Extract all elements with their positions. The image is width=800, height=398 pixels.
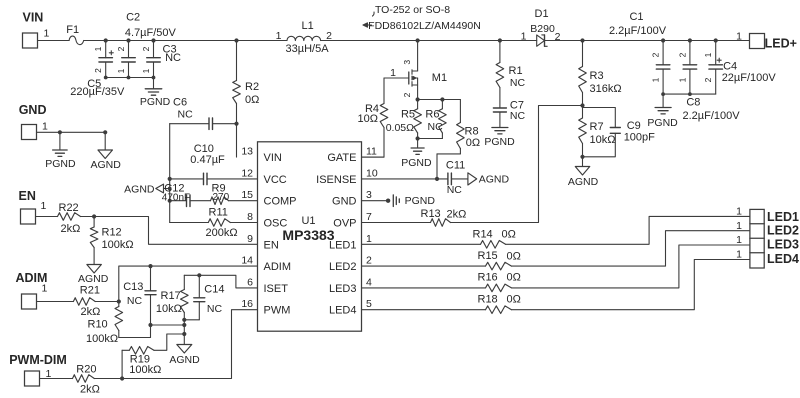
svg-text:0Ω: 0Ω (466, 137, 480, 149)
svg-text:R17: R17 (161, 290, 181, 302)
svg-text:R3: R3 (590, 70, 604, 82)
resistor R17 (156, 275, 188, 344)
annotation package TO-252 (373, 4, 451, 16)
svg-text:C13: C13 (123, 281, 143, 293)
svg-text:C4: C4 (723, 61, 737, 73)
svg-text:PGND: PGND (484, 136, 515, 148)
capacitor C7 (493, 88, 525, 128)
svg-text:C9: C9 (627, 120, 641, 132)
transistor M1 (384, 41, 447, 100)
capacitor C2 (116, 12, 177, 78)
ground PGND of R5 R6 (401, 139, 432, 170)
svg-text:2kΩ: 2kΩ (80, 384, 100, 396)
junction C5 (104, 38, 108, 42)
junction rail-C10 (168, 177, 172, 181)
svg-text:PWM: PWM (264, 305, 291, 317)
svg-text:0Ω: 0Ω (507, 272, 521, 284)
resistor R2 (233, 41, 260, 158)
junction R17-C14 bottom (182, 318, 186, 322)
svg-text:NC: NC (178, 109, 194, 121)
svg-text:GATE: GATE (327, 152, 356, 164)
svg-text:1: 1 (677, 77, 687, 82)
svg-text:3: 3 (402, 60, 412, 65)
svg-text:2: 2 (366, 255, 372, 267)
svg-text:13: 13 (241, 146, 253, 158)
ground PGND of GND pin (393, 195, 435, 207)
junction C13-R17 link (148, 323, 152, 327)
svg-text:C6: C6 (173, 97, 187, 109)
wire PWM net (94, 310, 257, 379)
svg-text:10kΩ: 10kΩ (590, 134, 616, 146)
junction M1 drain (416, 38, 420, 42)
svg-text:22µF/100V: 22µF/100V (722, 72, 777, 84)
svg-text:R22: R22 (59, 202, 79, 214)
svg-text:NC: NC (165, 52, 181, 64)
resistor R20 (73, 364, 100, 396)
svg-text:100kΩ: 100kΩ (102, 239, 134, 251)
svg-text:0.05Ω: 0.05Ω (386, 122, 414, 134)
svg-text:1: 1 (141, 68, 151, 73)
svg-text:LED4: LED4 (767, 252, 799, 266)
svg-text:LED1: LED1 (767, 210, 799, 224)
svg-text:1: 1 (736, 220, 742, 232)
svg-text:LED3: LED3 (329, 283, 357, 295)
resistor R3 (579, 41, 622, 106)
capacitor C8 (677, 41, 740, 123)
svg-text:ADIM: ADIM (264, 261, 292, 273)
svg-text:R14: R14 (473, 229, 493, 241)
svg-text:EN: EN (19, 189, 36, 203)
svg-text:LED+: LED+ (765, 37, 797, 51)
svg-text:16: 16 (241, 298, 253, 310)
resistor R18 (478, 294, 521, 314)
wire output cap bottoms (661, 92, 716, 96)
svg-text:8: 8 (247, 211, 253, 223)
svg-text:2: 2 (402, 92, 412, 97)
svg-text:7: 7 (366, 211, 372, 223)
wire GND pin (362, 199, 391, 203)
svg-text:C14: C14 (204, 284, 224, 296)
svg-text:AGND: AGND (169, 354, 200, 366)
svg-text:0.47µF: 0.47µF (190, 154, 225, 166)
resistor R21 (73, 284, 100, 318)
wire ADIM net (95, 266, 257, 304)
svg-text:LED3: LED3 (767, 237, 799, 251)
svg-text:11: 11 (366, 146, 377, 158)
junction R7 bottom (580, 155, 584, 159)
svg-text:F1: F1 (66, 24, 79, 36)
ground AGND of C11 (468, 173, 510, 186)
wire F1 to L1 (84, 40, 287, 42)
svg-text:1: 1 (93, 46, 103, 51)
capacitor C14 (184, 275, 224, 320)
svg-text:OSC: OSC (264, 218, 288, 230)
ground AGND tap (124, 184, 171, 196)
svg-text:1: 1 (703, 52, 713, 57)
inductor L1 (276, 20, 332, 55)
ground PGND of output caps (647, 94, 678, 129)
wire C13 to R17 bottom (151, 324, 185, 326)
svg-text:ISET: ISET (264, 283, 289, 295)
svg-text:0Ω: 0Ω (507, 251, 521, 263)
svg-text:C8: C8 (686, 97, 700, 109)
svg-text:GND: GND (332, 196, 357, 208)
wire R10 to C13 bottom (119, 337, 151, 339)
wire OVP feedback (451, 106, 583, 223)
connector LED1-LED4 (736, 206, 799, 269)
svg-text:NC: NC (447, 184, 463, 196)
svg-text:2: 2 (93, 68, 103, 73)
svg-text:1: 1 (736, 234, 742, 246)
svg-text:2kΩ: 2kΩ (61, 223, 81, 235)
svg-text:AGND: AGND (124, 184, 155, 196)
capacitor C9 (583, 108, 656, 157)
junction R19 tie (182, 332, 186, 336)
svg-text:100kΩ: 100kΩ (86, 333, 118, 345)
terminal LED+ (736, 31, 797, 51)
svg-text:AGND: AGND (91, 159, 122, 171)
svg-text:316kΩ: 316kΩ (590, 83, 622, 95)
svg-text:NC: NC (510, 110, 526, 122)
capacitor C5 (70, 41, 125, 99)
wire analog rail (169, 124, 171, 223)
svg-text:PGND: PGND (45, 158, 76, 170)
svg-text:AGND: AGND (568, 176, 599, 188)
ground PGND of GND terminal (45, 132, 76, 170)
junction R3 (580, 38, 584, 42)
wire ADIM to R21 (37, 301, 74, 303)
svg-text:NC: NC (207, 303, 223, 315)
svg-text:2.2µF/100V: 2.2µF/100V (609, 25, 667, 37)
svg-text:10kΩ: 10kΩ (156, 303, 182, 315)
ground AGND of GND terminal (91, 132, 122, 171)
svg-text:R18: R18 (478, 294, 498, 306)
svg-text:D1: D1 (535, 8, 549, 20)
svg-text:33µH/5A: 33µH/5A (286, 43, 330, 55)
svg-text:1: 1 (276, 30, 282, 42)
junction C1 (661, 38, 665, 42)
svg-text:220µF/35V: 220µF/35V (70, 86, 125, 98)
svg-text:R13: R13 (421, 208, 441, 220)
svg-text:C2: C2 (126, 12, 140, 24)
wire LED2 net (362, 231, 750, 266)
svg-text:LED4: LED4 (329, 305, 357, 317)
svg-text:2kΩ: 2kΩ (447, 209, 467, 221)
svg-text:R7: R7 (590, 121, 604, 133)
ground PGND input caps (140, 78, 171, 109)
svg-text:PGND: PGND (140, 96, 171, 108)
wire input cap bottoms (104, 76, 156, 80)
junction C8 (688, 38, 692, 42)
svg-text:LED1: LED1 (329, 239, 357, 251)
junction R2 (234, 38, 238, 42)
svg-text:4.7µF/50V: 4.7µF/50V (125, 27, 177, 39)
svg-text:VIN: VIN (23, 11, 44, 25)
resistor R5 (386, 100, 422, 139)
wire GND terminal (37, 130, 108, 134)
svg-text:14: 14 (241, 255, 253, 267)
svg-text:LED2: LED2 (767, 223, 799, 237)
svg-text:M1: M1 (432, 72, 447, 84)
junction R3-R7 (580, 103, 584, 107)
wire ISET box top (184, 273, 257, 288)
svg-text:200kΩ: 200kΩ (206, 227, 238, 239)
svg-text:0Ω: 0Ω (245, 94, 259, 106)
capacitor C3 (141, 41, 181, 78)
resistor R13 (362, 208, 467, 226)
resistor R19 (122, 334, 184, 376)
svg-text:2: 2 (703, 77, 713, 82)
svg-text:1: 1 (44, 28, 50, 40)
svg-text:NC: NC (510, 77, 526, 89)
junction R1-D1 (498, 38, 502, 42)
svg-text:AGND: AGND (479, 174, 510, 186)
svg-text:VIN: VIN (264, 152, 282, 164)
junction C3 (151, 38, 155, 42)
svg-text:1: 1 (390, 67, 396, 79)
svg-text:2: 2 (555, 31, 561, 43)
terminal ADIM (16, 271, 48, 309)
svg-text:100pF: 100pF (624, 132, 655, 144)
svg-text:EN: EN (264, 239, 279, 251)
svg-text:0Ω: 0Ω (507, 294, 521, 306)
svg-text:2kΩ: 2kΩ (81, 306, 101, 318)
terminal VIN (23, 11, 50, 49)
wire gate net (362, 78, 385, 157)
capacitor C4 (703, 41, 776, 95)
svg-text:R20: R20 (76, 364, 96, 376)
capacitor C6 (170, 97, 237, 130)
wire GATE pin stub (362, 156, 385, 158)
svg-text:0Ω: 0Ω (502, 229, 516, 241)
resistor R10 (86, 302, 123, 346)
svg-text:1: 1 (736, 206, 742, 218)
wire L1 to D1 (321, 40, 537, 42)
ground AGND of R7 (568, 157, 599, 188)
svg-text:R8: R8 (465, 126, 479, 138)
terminal EN (19, 189, 47, 224)
svg-text:2: 2 (651, 52, 661, 57)
resistor R22 (58, 202, 81, 235)
svg-text:470nF: 470nF (162, 193, 190, 204)
resistor R1 (496, 41, 525, 90)
ground PGND of C7 (484, 128, 515, 149)
svg-text:1: 1 (366, 233, 372, 245)
svg-text:270: 270 (213, 192, 230, 203)
op-amp U1 MP3383 IC (241, 142, 378, 331)
capacitor C11 (437, 160, 468, 197)
ground AGND of R12 (78, 265, 109, 286)
junction R2-C6 (234, 122, 238, 126)
svg-text:R21: R21 (80, 284, 100, 296)
svg-text:1: 1 (42, 121, 48, 133)
svg-text:2: 2 (141, 46, 151, 51)
svg-text:TO-252 or SO-8: TO-252 or SO-8 (375, 4, 450, 16)
svg-text:NC: NC (428, 121, 444, 133)
svg-text:PGND: PGND (405, 195, 436, 207)
svg-text:10: 10 (366, 167, 378, 179)
resistor R4 (358, 103, 388, 128)
wire LED3 net (362, 245, 750, 288)
junction C4 (714, 38, 718, 42)
svg-text:10Ω: 10Ω (358, 113, 378, 125)
svg-text:GND: GND (19, 103, 47, 117)
svg-text:1: 1 (116, 68, 126, 73)
svg-text:2.2µF/100V: 2.2µF/100V (683, 110, 741, 122)
svg-text:R16: R16 (478, 272, 498, 284)
resistor R6 (418, 100, 447, 139)
junction C13 top (148, 264, 152, 268)
svg-text:R10: R10 (88, 319, 108, 331)
wire VIN to F1 (38, 40, 70, 42)
svg-text:R1: R1 (509, 65, 523, 77)
ground AGND of R17 (169, 345, 200, 367)
resistor R8 (437, 100, 480, 179)
svg-text:4: 4 (366, 276, 372, 288)
svg-text:100kΩ: 100kΩ (129, 364, 161, 376)
svg-text:PWM-DIM: PWM-DIM (9, 353, 67, 367)
capacitor C13 (123, 266, 156, 337)
wire EN to R22 (36, 216, 58, 218)
svg-text:C11: C11 (446, 160, 465, 172)
svg-text:B290: B290 (530, 23, 555, 35)
svg-text:L1: L1 (302, 20, 314, 32)
capacitor C1 (609, 11, 670, 94)
annotation FDD86102 with arrow (363, 20, 481, 32)
wire LED4 net (362, 260, 750, 310)
svg-text:2: 2 (116, 46, 126, 51)
svg-text:5: 5 (366, 298, 372, 310)
svg-text:1: 1 (736, 249, 742, 261)
svg-text:12: 12 (241, 167, 253, 179)
terminal GND (19, 103, 48, 140)
wire ISENSE (362, 177, 440, 181)
svg-text:AGND: AGND (78, 273, 109, 285)
wire R19 to PWM line (120, 350, 124, 380)
svg-text:1: 1 (521, 31, 527, 43)
fuse F1 (66, 24, 83, 45)
terminal PWM-DIM (9, 353, 67, 386)
svg-text:3: 3 (366, 189, 372, 201)
junction R5-R6 ground (416, 136, 420, 140)
svg-text:R12: R12 (102, 227, 122, 239)
svg-text:R5: R5 (401, 109, 415, 121)
resistor R14 (473, 229, 516, 249)
svg-text:1: 1 (42, 283, 48, 295)
resistor R15 (478, 250, 521, 270)
wire M1 source (416, 97, 461, 101)
svg-text:15: 15 (241, 189, 253, 201)
svg-text:R15: R15 (478, 250, 498, 262)
svg-text:ISENSE: ISENSE (316, 174, 356, 186)
svg-text:6: 6 (247, 276, 253, 288)
svg-text:1: 1 (736, 31, 742, 43)
svg-text:R11: R11 (209, 207, 228, 219)
svg-text:R6: R6 (425, 109, 439, 121)
svg-text:OVP: OVP (333, 218, 356, 230)
diode D1 (521, 8, 750, 46)
svg-text:LED2: LED2 (329, 261, 357, 273)
svg-text:1: 1 (651, 77, 661, 82)
svg-text:VCC: VCC (264, 174, 287, 186)
capacitor C12 (162, 183, 211, 207)
svg-text:U1: U1 (301, 215, 315, 227)
capacitor C10 (170, 143, 258, 185)
resistor R9 (211, 183, 258, 205)
junction rail-C12 (168, 199, 172, 203)
svg-text:COMP: COMP (264, 196, 297, 208)
wire PWM to R20 (40, 378, 73, 380)
resistor R7 (579, 106, 616, 157)
svg-text:R2: R2 (245, 81, 259, 93)
svg-text:NC: NC (127, 295, 143, 307)
svg-text:PGND: PGND (401, 157, 432, 169)
svg-text:FDD86102LZ/AM4490N: FDD86102LZ/AM4490N (368, 20, 481, 32)
svg-text:2: 2 (677, 52, 687, 57)
svg-text:1: 1 (41, 200, 47, 212)
junction R17-AGND (182, 323, 186, 327)
junction C2 (126, 38, 130, 42)
wire LED1 net (362, 216, 750, 244)
resistor R11 (170, 207, 258, 240)
svg-text:C1: C1 (629, 11, 643, 23)
svg-text:9: 9 (247, 233, 253, 245)
svg-text:PGND: PGND (647, 117, 678, 129)
wire EN net (81, 214, 258, 244)
resistor R16 (478, 272, 521, 292)
svg-text:MP3383: MP3383 (282, 227, 334, 243)
resistor R12 (90, 217, 133, 265)
